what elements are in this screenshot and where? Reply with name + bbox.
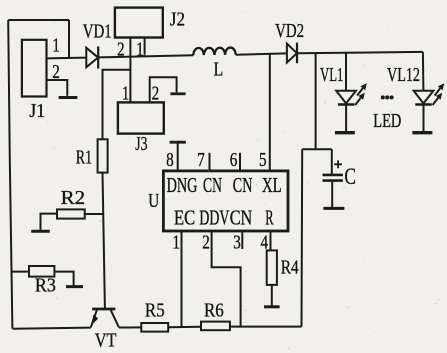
svg-text:3: 3	[233, 232, 241, 254]
svg-text:VT: VT	[95, 330, 117, 352]
svg-text:J2: J2	[170, 8, 185, 30]
svg-text:8: 8	[166, 149, 174, 171]
svg-text:DDV: DDV	[199, 207, 229, 230]
svg-text:1: 1	[172, 232, 180, 254]
svg-text:1: 1	[122, 83, 130, 105]
svg-text:2: 2	[52, 61, 60, 83]
svg-text:CN: CN	[233, 174, 253, 197]
svg-text:VD1: VD1	[83, 21, 112, 43]
svg-text:VL1: VL1	[320, 64, 343, 86]
svg-text:VD2: VD2	[275, 20, 304, 42]
svg-text:J1: J1	[29, 100, 45, 122]
svg-text:EC: EC	[174, 207, 195, 230]
svg-text:1: 1	[136, 38, 144, 60]
svg-text:R4: R4	[281, 256, 299, 278]
svg-text:R3: R3	[35, 275, 56, 297]
svg-text:LED: LED	[373, 110, 401, 132]
svg-text:J3: J3	[135, 133, 147, 155]
svg-text:7: 7	[197, 149, 205, 171]
svg-text:6: 6	[230, 149, 238, 171]
svg-text:CN: CN	[230, 207, 253, 230]
svg-text:CN: CN	[203, 174, 222, 197]
svg-text:1: 1	[52, 34, 60, 56]
svg-text:L: L	[214, 59, 224, 81]
svg-text:4: 4	[261, 232, 269, 254]
svg-text:VL12: VL12	[387, 64, 420, 86]
svg-text:C: C	[344, 164, 356, 189]
svg-text:U: U	[148, 190, 159, 212]
svg-text:R: R	[265, 207, 273, 230]
svg-text:DNG: DNG	[167, 174, 198, 197]
svg-text:2: 2	[152, 83, 160, 105]
svg-text:2: 2	[202, 232, 210, 254]
svg-text:XL: XL	[262, 174, 282, 197]
svg-text:5: 5	[259, 149, 267, 171]
svg-text:2: 2	[117, 38, 125, 60]
svg-text:R6: R6	[204, 300, 224, 322]
svg-text:R1: R1	[76, 146, 92, 168]
svg-text:R2: R2	[61, 187, 85, 209]
